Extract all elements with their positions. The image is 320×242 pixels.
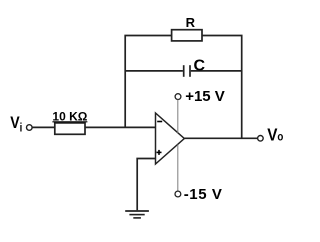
resistor 10 KΩ <box>55 123 85 134</box>
wire: feedback loop left vertical / top / right vertical <box>125 36 242 139</box>
resistor R <box>172 30 202 41</box>
svg-text:+15 V: +15 V <box>185 88 225 105</box>
wire: +15 V supply to op-amp top edge <box>177 100 179 133</box>
svg-text:R: R <box>186 15 196 30</box>
terminal +15 V <box>175 94 181 100</box>
op-amp non-inverting input marker (+) <box>157 150 162 155</box>
op-amp U1 <box>156 113 185 164</box>
node Vi input terminal <box>27 125 33 131</box>
op-amp inverting input marker (-) <box>157 121 162 123</box>
wire: output <box>184 137 257 139</box>
node Vo output terminal <box>258 136 264 142</box>
ground <box>125 211 149 218</box>
wire: op-amp bottom edge to -15 V supply <box>177 145 179 191</box>
terminal -15 V <box>175 191 181 197</box>
wire: input from Vi through 10 K resistor to inverting input <box>32 126 155 128</box>
svg-text:C: C <box>194 57 206 74</box>
label 10 KΩ <box>52 110 87 124</box>
capacitor C <box>184 65 190 77</box>
wire: capacitor branch right <box>191 70 242 72</box>
wire: capacitor branch left <box>125 70 183 72</box>
wire: non-inverting input to ground <box>137 159 155 211</box>
svg-text:-15 V: -15 V <box>184 186 223 203</box>
